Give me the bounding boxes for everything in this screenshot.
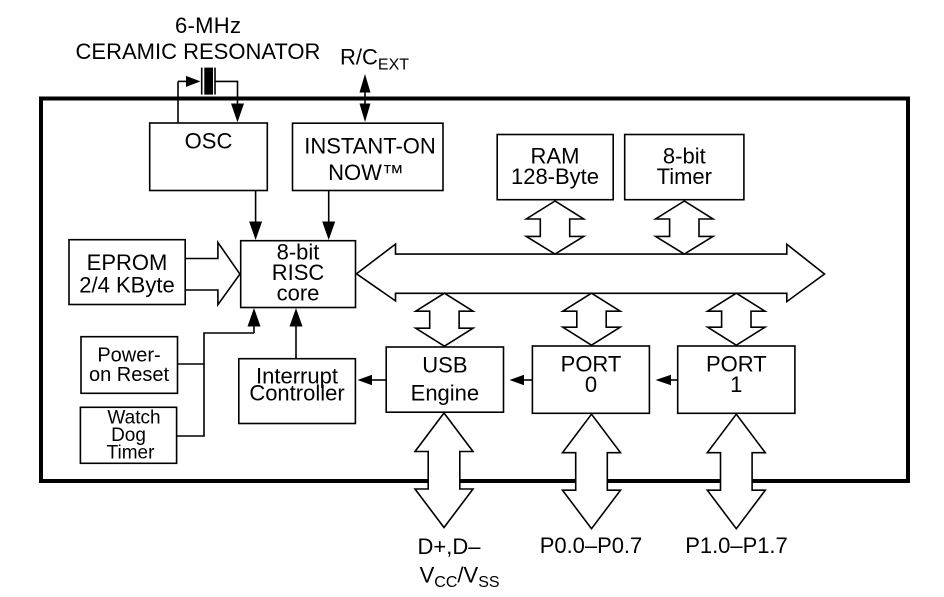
svg-text:6-MHz: 6-MHz xyxy=(175,13,241,38)
block Watch Dog Timer xyxy=(80,407,176,463)
arrowhead into RISC core from OSC xyxy=(249,222,262,241)
arrowhead interrupt into RISC core xyxy=(290,308,303,327)
svg-text:CERAMIC RESONATOR: CERAMIC RESONATOR xyxy=(76,39,321,64)
svg-text:D+,D–: D+,D– xyxy=(418,534,482,559)
block PORT 1 xyxy=(678,346,795,413)
arrowhead into Interrupt Controller xyxy=(358,375,373,385)
svg-text:2/4 KByte: 2/4 KByte xyxy=(79,273,174,298)
wire Watch Dog Timer to junction xyxy=(177,364,204,436)
block 8-bit RISC core xyxy=(241,240,356,308)
double arrow USB Engine to D+,D- pins xyxy=(415,413,473,528)
svg-text:Controller: Controller xyxy=(249,381,344,406)
ceramic resonator X1 xyxy=(202,68,215,95)
label 6-MHz CERAMIC RESONATOR xyxy=(76,13,321,64)
wire Power-on Reset to RISC junction xyxy=(178,333,255,364)
arrowhead reset into RISC core xyxy=(248,308,261,327)
svg-text:128-Byte: 128-Byte xyxy=(511,164,599,189)
double arrow bus to PORT 1 xyxy=(708,293,765,345)
svg-text:1: 1 xyxy=(730,372,742,397)
block EPROM 2/4 KByte xyxy=(69,240,185,305)
svg-text:EPROM: EPROM xyxy=(87,250,168,275)
arrowhead into PORT 0 xyxy=(656,375,672,385)
wire USB Engine to Interrupt Controller xyxy=(372,379,386,381)
block 8-bit Timer xyxy=(625,135,744,200)
double arrow PORT 0 to P0 pins xyxy=(563,414,621,529)
svg-text:core: core xyxy=(277,281,320,306)
block OSC xyxy=(150,123,268,191)
system bus (bidirectional) xyxy=(357,244,825,302)
svg-text:INSTANT-ON: INSTANT-ON xyxy=(304,134,436,159)
block INSTANT-ON NOW xyxy=(293,123,444,190)
svg-text:on Reset: on Reset xyxy=(89,364,169,386)
svg-text:Timer: Timer xyxy=(657,164,712,189)
double arrow bus to PORT 0 xyxy=(563,293,620,345)
wire resonator left lead down to OSC xyxy=(177,81,179,122)
arrowhead into resonator xyxy=(186,76,201,87)
double arrow PORT 1 to P1 pins xyxy=(707,414,765,529)
block Interrupt Controller xyxy=(239,359,356,424)
outer chip boundary xyxy=(41,99,908,482)
double arrow RAM to bus xyxy=(526,201,583,254)
wire resonator right lead to OSC xyxy=(215,81,238,105)
bus arrow EPROM to RISC core xyxy=(186,242,240,304)
block RAM 128-Byte xyxy=(497,135,613,200)
block PORT 0 xyxy=(532,346,649,413)
arrowhead into RISC core from INSTANT-ON xyxy=(322,222,335,241)
block Power-on Reset xyxy=(81,337,178,394)
svg-text:0: 0 xyxy=(585,372,597,397)
svg-text:P0.0–P0.7: P0.0–P0.7 xyxy=(540,533,643,558)
arrowhead into OSC xyxy=(231,104,244,123)
svg-text:USB: USB xyxy=(422,353,467,378)
wire PORT 1 to PORT 0 xyxy=(671,379,678,381)
svg-text:Timer: Timer xyxy=(107,443,156,464)
svg-text:Engine: Engine xyxy=(411,380,480,405)
arrowhead into USB Engine xyxy=(510,375,525,385)
R/C_EXT bidirectional arrow xyxy=(360,74,371,122)
block USB Engine xyxy=(386,347,503,412)
svg-text:P1.0–P1.7: P1.0–P1.7 xyxy=(685,533,788,558)
svg-text:OSC: OSC xyxy=(185,129,233,154)
wire OSC to RISC core xyxy=(255,191,257,223)
wire PORT 0 to USB Engine xyxy=(524,379,532,381)
double arrow bus to USB Engine xyxy=(416,293,473,346)
double arrow Timer to bus xyxy=(656,201,713,254)
wire Interrupt Controller to RISC core xyxy=(295,326,297,359)
wire reset network up to RISC core xyxy=(253,326,255,333)
wire resonator tail tick xyxy=(178,80,187,82)
pin label D+,D- / VCC/VSS xyxy=(418,534,500,591)
wire INSTANT-ON to RISC core xyxy=(328,191,330,223)
svg-text:NOW™: NOW™ xyxy=(328,160,404,185)
